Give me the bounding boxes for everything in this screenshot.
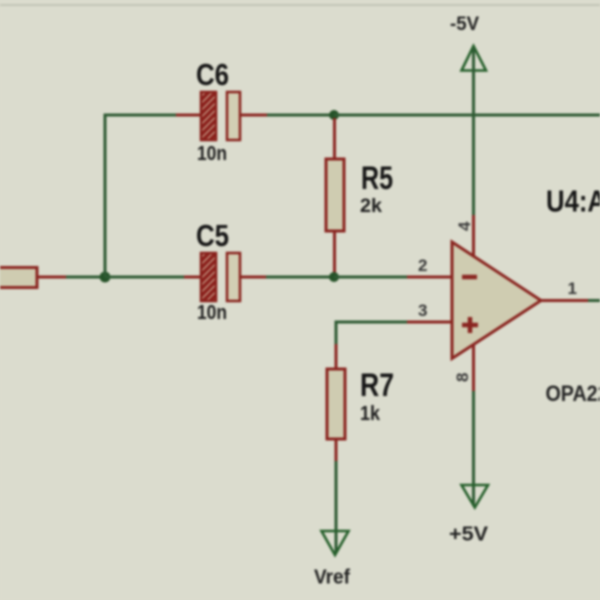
wire pin 3 to R7 corner	[336, 322, 407, 345]
wire node A to C5	[105, 276, 184, 279]
capacitor C5	[184, 253, 266, 301]
wire C6 to node B	[267, 114, 334, 117]
svg-text:10n: 10n	[197, 143, 227, 165]
resistor R5	[326, 118, 344, 274]
power Vref arrow	[322, 531, 349, 555]
inverting input minus symbol	[462, 275, 477, 280]
wire node A up to C6 row	[105, 115, 176, 277]
power -5V arrow	[462, 46, 487, 215]
svg-text:2: 2	[418, 256, 427, 275]
svg-text:2k: 2k	[360, 196, 382, 217]
wire node C to pin 2	[334, 276, 407, 279]
svg-text:1k: 1k	[360, 403, 381, 425]
svg-text:U4:A: U4:A	[546, 184, 600, 219]
wire input to node A	[66, 276, 105, 279]
terminal J1 (input, clipped at left edge)	[0, 268, 66, 288]
non-inverting input plus symbol	[462, 317, 478, 333]
wire node B to right edge	[334, 114, 600, 117]
wire output to right edge	[588, 299, 600, 302]
svg-text:+5V: +5V	[449, 524, 489, 546]
op-amp pin 4 (V-)	[472, 215, 475, 256]
svg-text:R7: R7	[360, 367, 394, 403]
svg-text:-5V: -5V	[450, 14, 479, 35]
capacitor C6	[176, 92, 267, 140]
wire C5 to node C	[266, 276, 334, 279]
svg-text:OPA227: OPA227	[546, 381, 600, 406]
node B (junction, R5 top)	[329, 110, 339, 120]
node C (junction, R5 bottom)	[329, 272, 339, 282]
node A (junction)	[100, 272, 111, 283]
svg-text:3: 3	[418, 301, 427, 320]
wire R7 to Vref arrow	[335, 461, 338, 553]
power +5V arrow	[462, 391, 489, 508]
op-amp pin 1 (output)	[541, 299, 588, 302]
svg-text:1: 1	[568, 279, 577, 298]
op-amp U4:A pin 2 (inverting input)	[407, 276, 452, 279]
svg-text:R5: R5	[361, 160, 393, 196]
op-amp U4:A body	[452, 242, 541, 359]
op-amp pin 8 (V+)	[472, 344, 475, 391]
svg-text:C6: C6	[196, 57, 229, 92]
svg-text:Vref: Vref	[314, 567, 350, 589]
svg-text:8: 8	[453, 373, 472, 382]
svg-text:4: 4	[455, 221, 474, 231]
svg-text:C5: C5	[196, 218, 229, 253]
op-amp U4:A pin 3 (non-inverting input)	[407, 321, 452, 324]
resistor R7	[327, 344, 345, 461]
svg-text:10n: 10n	[197, 302, 227, 324]
